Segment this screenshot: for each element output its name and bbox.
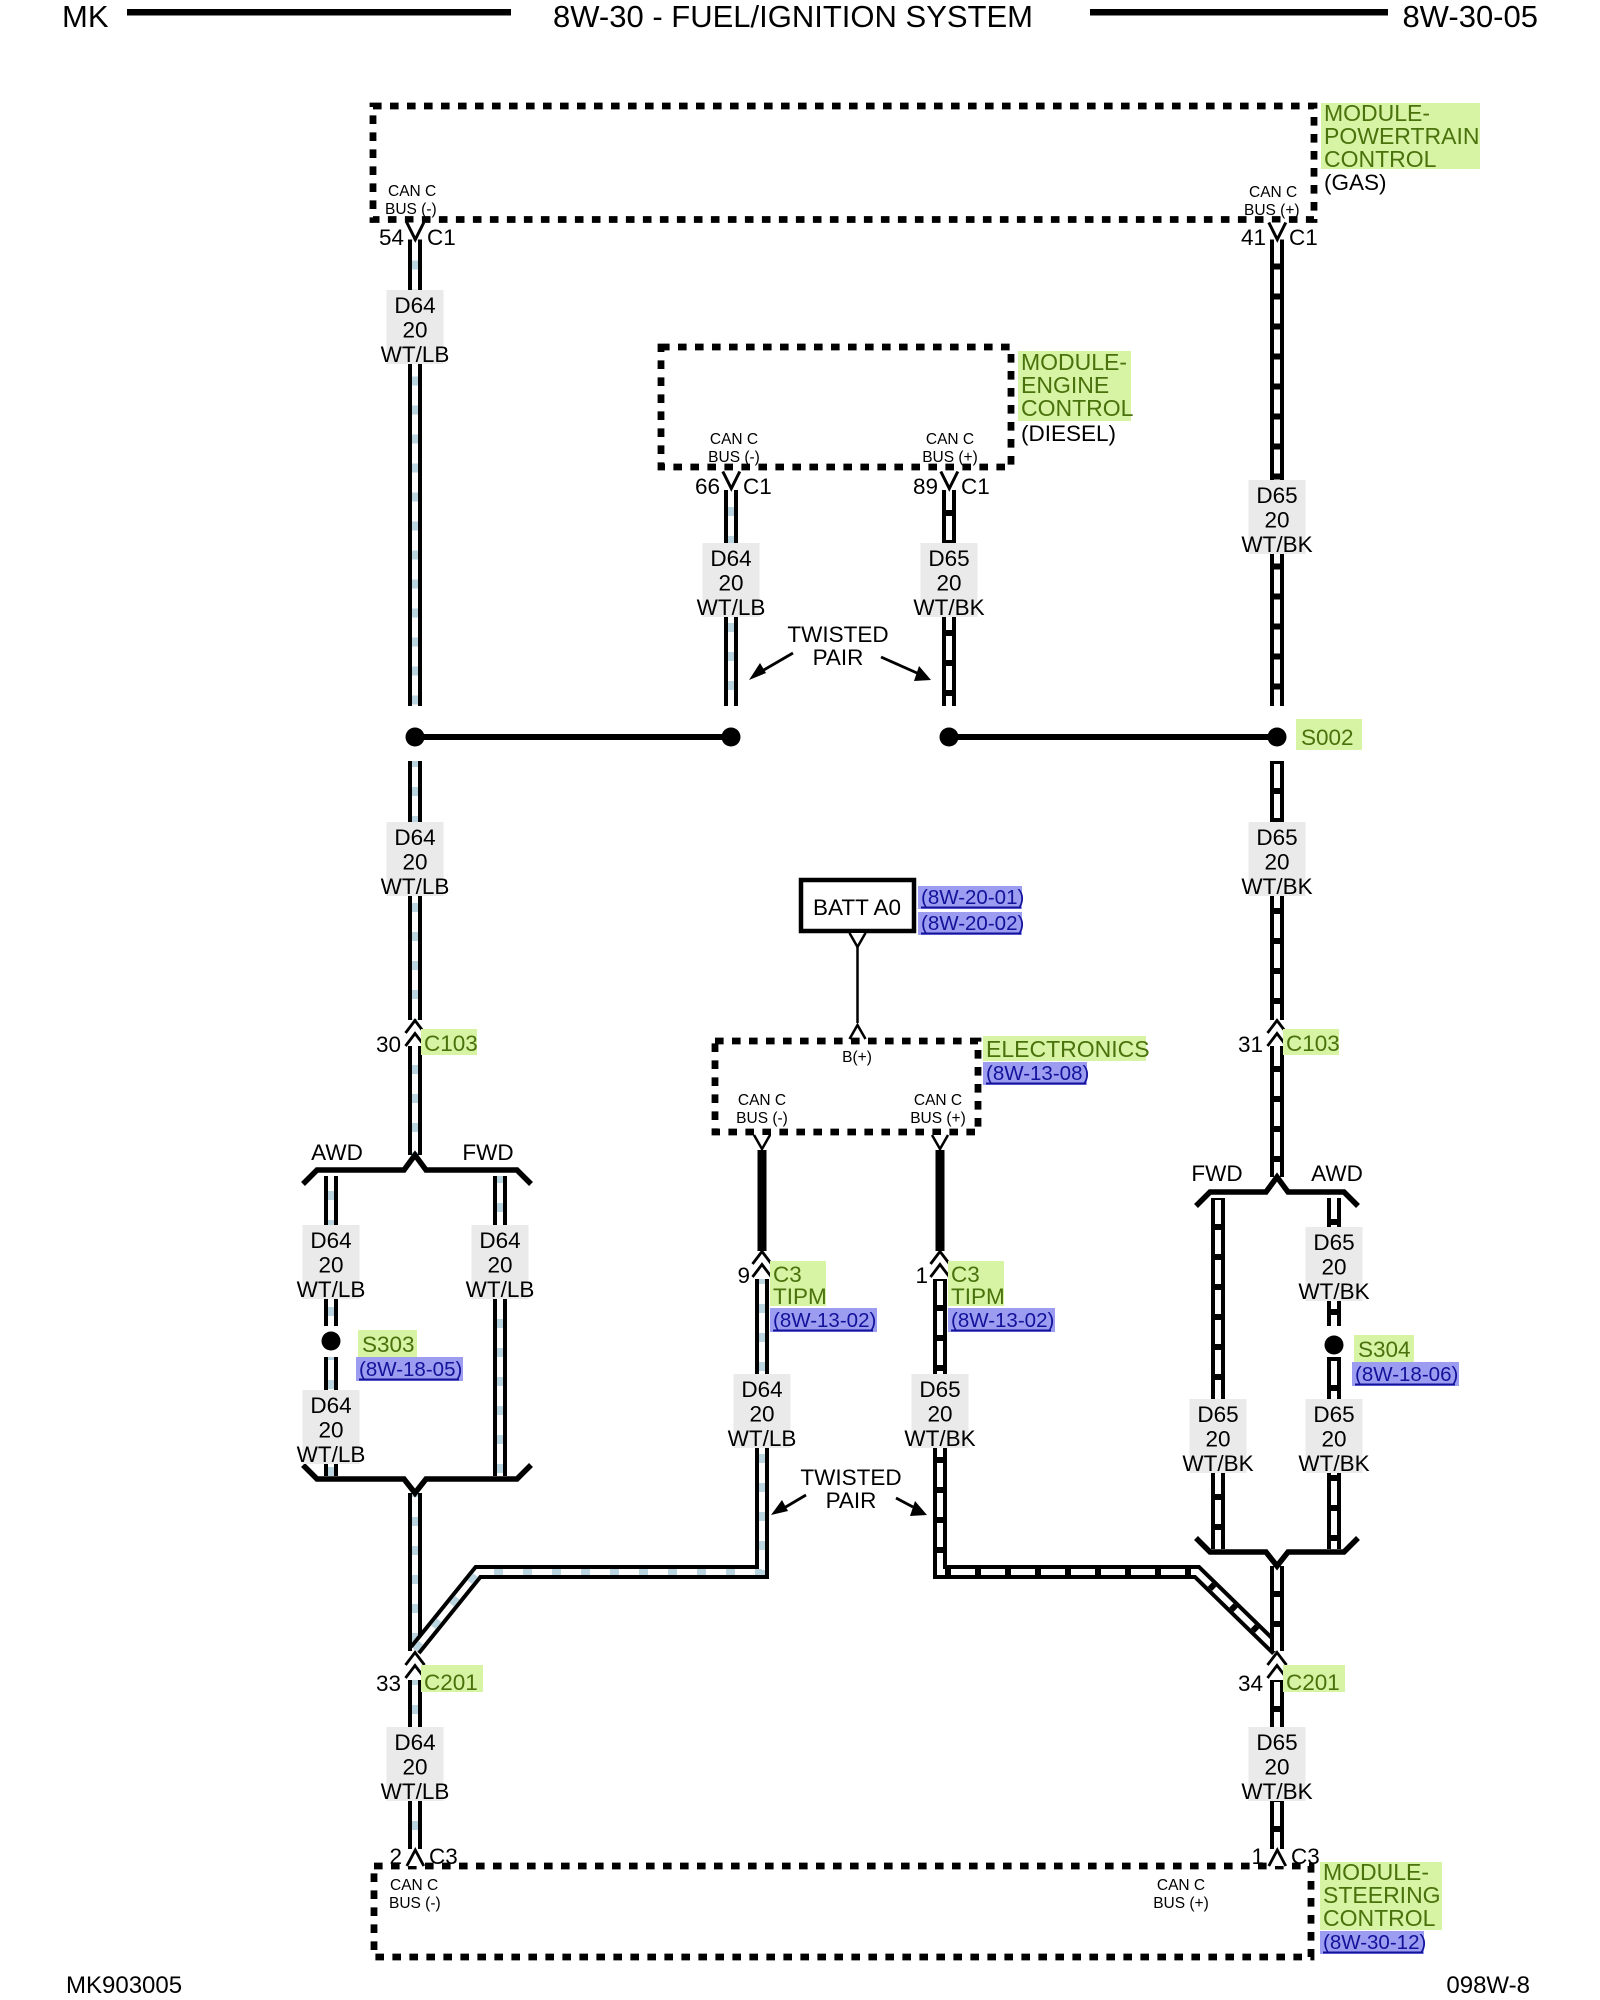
splice S002 bus bar right segment <box>949 734 1277 740</box>
svg-text:C1: C1 <box>1289 225 1318 250</box>
reference (8W-18-06) for S304 <box>1352 1362 1459 1386</box>
svg-text:20: 20 <box>487 1253 512 1278</box>
svg-text:TWISTED: TWISTED <box>787 622 888 647</box>
module box: MODULE-STEERING CONTROL, dashed outline <box>374 1866 1311 1957</box>
svg-text:D64: D64 <box>394 1730 435 1755</box>
svg-text:C201: C201 <box>424 1670 478 1695</box>
value label D65 20 WT/BK (AWD branch) <box>1298 1227 1369 1304</box>
svg-text:S304: S304 <box>1358 1337 1411 1362</box>
svg-text:2: 2 <box>389 1844 402 1869</box>
reference (8W-30-12) <box>1320 1931 1424 1954</box>
svg-text:(8W-13-02): (8W-13-02) <box>773 1309 876 1332</box>
svg-text:WT/LB: WT/LB <box>466 1277 535 1302</box>
svg-text:20: 20 <box>1264 1755 1289 1780</box>
svg-text:9: 9 <box>737 1263 750 1288</box>
svg-text:41: 41 <box>1241 225 1266 250</box>
svg-text:C1: C1 <box>427 225 456 250</box>
wire D65 20 WT/BK from C103 to FWD/AWD split <box>1270 1046 1284 1177</box>
svg-text:TIPM: TIPM <box>951 1284 1005 1309</box>
svg-text:C1: C1 <box>743 474 772 499</box>
wire D65 20 WT/BK FWD branch <box>1211 1198 1225 1549</box>
splice S303 <box>322 1332 341 1351</box>
svg-text:WT/LB: WT/LB <box>697 595 766 620</box>
svg-text:WT/BK: WT/BK <box>904 1426 975 1451</box>
svg-text:WT/BK: WT/BK <box>1182 1451 1253 1476</box>
svg-text:D64: D64 <box>710 546 751 571</box>
svg-text:BUS (+): BUS (+) <box>910 1110 966 1127</box>
value label D65 20 WT/BK (below S304) <box>1298 1399 1369 1476</box>
svg-text:B(+): B(+) <box>842 1049 872 1066</box>
svg-text:098W-8: 098W-8 <box>1446 1972 1530 1999</box>
value label D65 20 WT/BK (to SCM) <box>1241 1727 1312 1804</box>
splice S002 junction dot at x=415 <box>406 728 425 747</box>
svg-text:S303: S303 <box>362 1332 415 1357</box>
svg-text:20: 20 <box>749 1402 774 1427</box>
svg-text:D65: D65 <box>928 546 969 571</box>
value label D64 20 WT/LB (PCM leg) <box>381 290 450 367</box>
svg-text:54: 54 <box>379 225 404 250</box>
reference (8W-20-02) <box>918 912 1022 935</box>
svg-text:TIPM: TIPM <box>773 1284 827 1309</box>
svg-text:(8W-18-06): (8W-18-06) <box>1355 1363 1458 1386</box>
wire D64 20 WT/LB from PCM pin 54 down to splice S002 <box>408 240 422 707</box>
label MODULE-STEERING CONTROL <box>1320 1862 1442 1930</box>
svg-text:WT/BK: WT/BK <box>1298 1451 1369 1476</box>
svg-text:D64: D64 <box>310 1228 351 1253</box>
wire D65 20 WT/BK from PCM pin 41 down to splice S002 <box>1270 240 1284 707</box>
connector C201 pin 33 <box>376 1653 483 1697</box>
value label D65 20 WT/BK (FWD branch) <box>1182 1399 1253 1476</box>
svg-text:CONTROL: CONTROL <box>1021 395 1134 421</box>
wire from BATT A0 to ELECTRONICS B(+) <box>850 933 866 947</box>
svg-text:D64: D64 <box>741 1377 782 1402</box>
splice S002 junction dot at x=731 <box>722 728 741 747</box>
wire D64 20 WT/LB routed left then diagonal down to C201 pin 33 <box>415 1374 762 1650</box>
svg-text:CAN C: CAN C <box>914 1092 962 1109</box>
wire D64 20 WT/LB from C201 pin 33 to SCM C3 pin 2 <box>408 1680 422 1849</box>
split brace below C103 pin 31 <box>1196 1177 1358 1206</box>
annotation TWISTED PAIR (upper) <box>749 622 931 681</box>
svg-text:BUS (+): BUS (+) <box>1153 1895 1209 1912</box>
svg-text:S002: S002 <box>1301 725 1354 750</box>
svg-text:(8W-30-12): (8W-30-12) <box>1323 1931 1426 1954</box>
connector C201 pin 34 <box>1238 1653 1345 1697</box>
svg-text:(8W-20-02): (8W-20-02) <box>921 912 1024 935</box>
label MODULE-POWERTRAIN CONTROL (GAS) <box>1321 103 1480 169</box>
svg-text:FWD: FWD <box>1191 1161 1242 1186</box>
value label D64 20 WT/LB (below S002) <box>381 822 450 899</box>
svg-text:CAN C: CAN C <box>1157 1877 1205 1894</box>
svg-text:20: 20 <box>318 1253 343 1278</box>
wire D64 20 WT/LB FWD branch <box>493 1176 507 1476</box>
wire D65 20 WT/BK from FWD/AWD merge down to C201 pin 34 <box>1270 1566 1284 1651</box>
electronics CAN C BUS (+) pigtail <box>932 1135 948 1149</box>
header rule right <box>1090 9 1388 16</box>
wire D65 20 WT/BK from TIPM C3 pin 1 down <box>933 1279 947 1374</box>
svg-text:(GAS): (GAS) <box>1324 170 1387 195</box>
svg-text:WT/BK: WT/BK <box>1241 532 1312 557</box>
svg-text:C201: C201 <box>1286 1670 1340 1695</box>
svg-text:WT/LB: WT/LB <box>297 1442 366 1467</box>
value label D64 20 WT/LB (ECM leg) <box>697 543 766 620</box>
module box: MODULE-POWERTRAIN CONTROL (GAS), dashed outline <box>373 106 1314 220</box>
svg-text:20: 20 <box>402 1755 427 1780</box>
svg-text:1: 1 <box>1251 1844 1264 1869</box>
svg-text:WT/BK: WT/BK <box>1241 1779 1312 1804</box>
svg-text:20: 20 <box>1321 1255 1346 1280</box>
annotation TWISTED PAIR (lower) <box>771 1465 927 1516</box>
wire D65 20 WT/BK AWD branch lower segment from splice S304 <box>1327 1357 1341 1549</box>
svg-text:C103: C103 <box>1286 1031 1340 1056</box>
svg-text:CAN C: CAN C <box>926 431 974 448</box>
svg-text:20: 20 <box>718 571 743 596</box>
PCM pin 41 of connector C1 <box>1241 223 1318 251</box>
reference (8W-20-01) <box>918 886 1022 909</box>
svg-text:C3: C3 <box>429 1844 458 1869</box>
header rule left <box>127 9 511 16</box>
svg-text:BUS (-): BUS (-) <box>708 449 760 466</box>
svg-text:TWISTED: TWISTED <box>800 1465 901 1490</box>
svg-text:CAN C: CAN C <box>390 1877 438 1894</box>
svg-text:WT/BK: WT/BK <box>1298 1279 1369 1304</box>
svg-text:D64: D64 <box>310 1393 351 1418</box>
ECM pin 89 of connector C1 <box>913 472 990 500</box>
svg-text:D65: D65 <box>1256 825 1297 850</box>
svg-text:20: 20 <box>936 571 961 596</box>
wire D65 20 WT/BK routed right then diagonal down to C201 pin 34 <box>940 1374 1277 1650</box>
value label D65 20 WT/BK (ECM leg) <box>913 543 984 620</box>
svg-text:31: 31 <box>1238 1032 1263 1057</box>
svg-text:WT/BK: WT/BK <box>913 595 984 620</box>
wire D64 20 WT/LB from AWD/FWD merge down to C201 pin 33 <box>408 1493 422 1651</box>
svg-text:WT/LB: WT/LB <box>381 874 450 899</box>
svg-text:CONTROL: CONTROL <box>1324 146 1437 172</box>
reference (8W-13-02) right <box>948 1308 1055 1332</box>
svg-text:20: 20 <box>927 1402 952 1427</box>
svg-text:(8W-13-08): (8W-13-08) <box>986 1062 1089 1085</box>
wire D65 20 WT/BK AWD branch upper segment to splice S304 <box>1327 1198 1341 1326</box>
svg-text:AWD: AWD <box>311 1140 363 1165</box>
merge brace above C201 pin 33 <box>303 1465 531 1493</box>
svg-text:34: 34 <box>1238 1671 1263 1696</box>
svg-text:20: 20 <box>402 850 427 875</box>
svg-text:WT/LB: WT/LB <box>381 342 450 367</box>
splice S002 bus bar left segment <box>415 734 731 740</box>
svg-text:BUS (-): BUS (-) <box>389 1895 441 1912</box>
merge brace above C201 pin 34 <box>1196 1538 1358 1566</box>
svg-text:AWD: AWD <box>1311 1161 1363 1186</box>
module box: ELECTRONICS, dashed outline <box>715 1041 978 1132</box>
svg-text:20: 20 <box>1321 1427 1346 1452</box>
wire D64 20 WT/LB from ECM pin 66 down to splice S002 <box>724 490 738 706</box>
splice S304 <box>1325 1336 1344 1355</box>
svg-text:PAIR: PAIR <box>826 1488 877 1513</box>
electronics CAN C BUS (-) pigtail <box>754 1135 770 1149</box>
svg-text:MK903005: MK903005 <box>66 1972 182 1999</box>
value label D64 20 WT/LB (AWD branch) <box>297 1225 366 1302</box>
svg-text:FWD: FWD <box>462 1140 513 1165</box>
wire D64 20 WT/LB AWD branch upper segment to splice S303 <box>324 1176 338 1326</box>
wire D65 20 WT/BK from splice S002 down to connector C103 pin 31 <box>1270 761 1284 1020</box>
svg-text:CAN C: CAN C <box>388 183 436 200</box>
svg-text:WT/LB: WT/LB <box>297 1277 366 1302</box>
splice S002 junction dot at x=949 <box>940 728 959 747</box>
svg-text:8W-30 - FUEL/IGNITION SYSTEM: 8W-30 - FUEL/IGNITION SYSTEM <box>553 0 1033 34</box>
svg-text:BUS (+): BUS (+) <box>922 449 978 466</box>
splice S002 junction dot at x=1277 <box>1268 728 1287 747</box>
svg-text:D65: D65 <box>1313 1402 1354 1427</box>
battery feed BATT A0 box <box>801 880 914 931</box>
reference (8W-18-05) for S303 <box>356 1357 463 1381</box>
svg-text:BUS (-): BUS (-) <box>385 201 437 218</box>
wire D64 20 WT/LB AWD branch lower segment from splice S303 <box>324 1357 338 1476</box>
svg-text:89: 89 <box>913 474 938 499</box>
wire D65 20 WT/BK from ECM pin 89 down to splice S002 <box>942 490 956 706</box>
svg-text:C1: C1 <box>961 474 990 499</box>
svg-text:D65: D65 <box>1197 1402 1238 1427</box>
svg-text:20: 20 <box>1205 1427 1230 1452</box>
SCM pin 1 of connector C3 <box>1251 1844 1319 1869</box>
SCM pin 2 of connector C3 <box>389 1844 457 1869</box>
value label D65 20 WT/BK (PCM leg) <box>1241 480 1312 557</box>
svg-text:WT/LB: WT/LB <box>381 1779 450 1804</box>
svg-text:(8W-20-01): (8W-20-01) <box>921 886 1024 909</box>
reference (8W-13-08) <box>983 1062 1087 1085</box>
value label D64 20 WT/LB (TIPM leg) <box>728 1374 797 1451</box>
connector C3 pin 1 at TIPM <box>915 1252 1004 1310</box>
value label D65 20 WT/BK (TIPM leg) <box>904 1374 975 1451</box>
svg-text:20: 20 <box>318 1418 343 1443</box>
value label D64 20 WT/LB (FWD branch) <box>466 1225 535 1302</box>
svg-text:CAN C: CAN C <box>738 1092 786 1109</box>
svg-text:D65: D65 <box>919 1377 960 1402</box>
svg-text:PAIR: PAIR <box>813 645 864 670</box>
connector C103 pin 31 <box>1238 1021 1340 1058</box>
svg-text:C3: C3 <box>1291 1844 1320 1869</box>
split brace below C103 pin 30 <box>303 1155 531 1184</box>
svg-text:20: 20 <box>402 318 427 343</box>
label ELECTRONICS <box>983 1036 1146 1061</box>
svg-text:66: 66 <box>695 474 720 499</box>
svg-text:20: 20 <box>1264 850 1289 875</box>
ECM pin 66 of connector C1 <box>695 472 772 500</box>
svg-text:MK: MK <box>62 0 109 34</box>
wire D64 20 WT/LB from TIPM C3 pin 9 down <box>755 1279 769 1374</box>
splice S002 label <box>1296 719 1362 750</box>
svg-text:30: 30 <box>376 1032 401 1057</box>
svg-text:33: 33 <box>376 1671 401 1696</box>
wire D64 20 WT/LB from C103 to AWD/FWD split <box>408 1046 422 1155</box>
svg-text:20: 20 <box>1264 508 1289 533</box>
svg-text:D65: D65 <box>1256 483 1297 508</box>
svg-text:D64: D64 <box>394 825 435 850</box>
svg-text:BUS (+): BUS (+) <box>1244 202 1300 219</box>
svg-text:1: 1 <box>915 1263 928 1288</box>
svg-text:(8W-13-02): (8W-13-02) <box>951 1309 1054 1332</box>
wire D64 20 WT/LB from splice S002 down to connector C103 pin 30 <box>408 761 422 1020</box>
label MODULE-ENGINE CONTROL (DIESEL) <box>1018 351 1131 421</box>
wire D65 20 WT/BK from C201 pin 34 to SCM C3 pin 1 <box>1270 1680 1284 1849</box>
module box: MODULE-ENGINE CONTROL (DIESEL), dashed outline <box>661 347 1011 467</box>
svg-text:C103: C103 <box>424 1031 478 1056</box>
svg-text:BUS (-): BUS (-) <box>736 1110 788 1127</box>
svg-text:(8W-18-05): (8W-18-05) <box>359 1358 462 1381</box>
value label D64 20 WT/LB (to SCM) <box>381 1727 450 1804</box>
svg-text:D65: D65 <box>1313 1230 1354 1255</box>
svg-text:BATT A0: BATT A0 <box>813 895 901 920</box>
connector C3 pin 9 at TIPM <box>737 1252 826 1310</box>
svg-text:8W-30-05: 8W-30-05 <box>1402 0 1538 34</box>
PCM pin 54 of connector C1 <box>379 223 456 251</box>
svg-text:CAN C: CAN C <box>710 431 758 448</box>
svg-text:CAN C: CAN C <box>1249 184 1297 201</box>
svg-text:WT/LB: WT/LB <box>728 1426 797 1451</box>
value label D64 20 WT/LB (below S303) <box>297 1390 366 1467</box>
reference (8W-13-02) left <box>770 1308 877 1332</box>
svg-text:WT/BK: WT/BK <box>1241 874 1312 899</box>
connector C103 pin 30 <box>376 1021 478 1058</box>
svg-text:D64: D64 <box>479 1228 520 1253</box>
svg-text:(DIESEL): (DIESEL) <box>1021 421 1116 446</box>
svg-text:D64: D64 <box>394 293 435 318</box>
svg-text:CONTROL: CONTROL <box>1323 1905 1436 1931</box>
value label D65 20 WT/BK (below S002) <box>1241 822 1312 899</box>
svg-text:ELECTRONICS: ELECTRONICS <box>986 1036 1150 1062</box>
svg-text:D65: D65 <box>1256 1730 1297 1755</box>
